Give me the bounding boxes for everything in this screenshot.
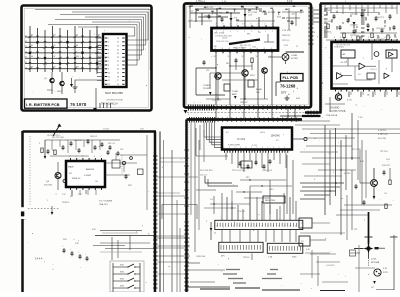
svg-text:C14 C209: C14 C209 bbox=[324, 21, 333, 23]
svg-text:3: 3 bbox=[334, 37, 335, 39]
svg-text:TP2 O.1: TP2 O.1 bbox=[282, 40, 290, 42]
svg-text:3: 3 bbox=[390, 37, 391, 39]
svg-text:5B36 5C: 5B36 5C bbox=[72, 178, 81, 180]
svg-text:C209 4.7K 1O4: C209 4.7K 1O4 bbox=[216, 41, 228, 43]
svg-text:4: 4 bbox=[222, 226, 223, 228]
svg-text:C14: C14 bbox=[190, 11, 193, 13]
svg-text:2: 2 bbox=[257, 147, 258, 149]
svg-text:IC17 TDA/NE: IC17 TDA/NE bbox=[99, 200, 113, 203]
svg-text:23: 23 bbox=[117, 57, 119, 59]
svg-text:2: 2 bbox=[230, 24, 231, 26]
svg-text:1N4 O.1: 1N4 O.1 bbox=[90, 136, 97, 138]
svg-text:2: 2 bbox=[216, 24, 217, 26]
svg-text:4: 4 bbox=[290, 226, 291, 228]
svg-text:2SC O.1: 2SC O.1 bbox=[108, 143, 115, 145]
svg-text:2: 2 bbox=[265, 24, 266, 26]
svg-text:1OK TP2: 1OK TP2 bbox=[376, 17, 384, 19]
svg-text:13: 13 bbox=[108, 84, 110, 86]
svg-text:2: 2 bbox=[279, 147, 280, 149]
svg-text:C209 1N4: C209 1N4 bbox=[196, 256, 206, 258]
svg-text:2SC945: 2SC945 bbox=[44, 185, 53, 187]
svg-text:18: 18 bbox=[117, 76, 119, 78]
svg-text:S4: S4 bbox=[31, 56, 33, 58]
svg-text:4.5MHZ: 4.5MHZ bbox=[84, 175, 92, 177]
svg-text:O.1: O.1 bbox=[210, 199, 213, 201]
svg-text:4: 4 bbox=[295, 226, 296, 228]
svg-text:XTAL FILTER: XTAL FILTER bbox=[262, 11, 276, 14]
svg-text:TP2 33O: TP2 33O bbox=[324, 10, 332, 12]
svg-text:24: 24 bbox=[117, 53, 119, 55]
svg-text:O.1 L20: O.1 L20 bbox=[238, 211, 245, 213]
svg-text:REG 7805: REG 7805 bbox=[265, 200, 276, 202]
svg-text:26: 26 bbox=[117, 46, 119, 48]
svg-text:4: 4 bbox=[228, 226, 229, 228]
svg-text:8: 8 bbox=[257, 48, 258, 50]
svg-text:FILTER: FILTER bbox=[291, 58, 298, 60]
svg-text:2: 2 bbox=[229, 147, 230, 149]
svg-text:C209 1O4: C209 1O4 bbox=[376, 28, 385, 30]
svg-text:R201: R201 bbox=[277, 17, 281, 19]
svg-text:S8: S8 bbox=[76, 45, 78, 47]
svg-text:2: 2 bbox=[268, 147, 269, 149]
svg-text:8: 8 bbox=[229, 48, 230, 50]
svg-text:8: 8 bbox=[222, 48, 223, 50]
svg-text:76-1268: 76-1268 bbox=[280, 84, 296, 89]
svg-text:TP4O1: TP4O1 bbox=[62, 202, 70, 204]
svg-text:22: 22 bbox=[117, 61, 119, 63]
svg-text:5: 5 bbox=[108, 53, 109, 55]
svg-text:O4 21: O4 21 bbox=[222, 38, 228, 40]
svg-text:47O C209: 47O C209 bbox=[248, 12, 258, 14]
svg-text:2 O11: 2 O11 bbox=[252, 145, 258, 147]
svg-text:19: 19 bbox=[117, 72, 119, 74]
svg-text:TP2: TP2 bbox=[219, 13, 222, 15]
svg-text:[S4O94]: [S4O94] bbox=[271, 136, 280, 138]
svg-text:TP2 O.O1 33O: TP2 O.O1 33O bbox=[232, 170, 246, 172]
svg-text:2: 2 bbox=[273, 147, 274, 149]
svg-text:OUTPUT PCB: OUTPUT PCB bbox=[330, 110, 346, 113]
svg-text:9: 9 bbox=[108, 69, 109, 71]
svg-text:SW3: SW3 bbox=[120, 279, 124, 281]
svg-text:8: 8 bbox=[215, 48, 216, 50]
svg-text:4.7K C209: 4.7K C209 bbox=[378, 134, 388, 136]
svg-text:L20 22O: L20 22O bbox=[350, 35, 358, 37]
svg-text:R201: R201 bbox=[250, 75, 255, 77]
svg-text:L20 O.1: L20 O.1 bbox=[200, 175, 208, 177]
svg-text:S3: S3 bbox=[53, 35, 55, 37]
svg-text:4: 4 bbox=[216, 226, 217, 228]
svg-text:1: 1 bbox=[237, 31, 238, 33]
svg-text:1: 1 bbox=[108, 38, 109, 40]
svg-text:2: 2 bbox=[223, 24, 224, 26]
svg-text:3: 3 bbox=[108, 46, 109, 48]
svg-text:1N4 R12: 1N4 R12 bbox=[240, 102, 247, 104]
svg-text:8: 8 bbox=[250, 48, 251, 50]
svg-text:C209: C209 bbox=[248, 15, 252, 17]
svg-text:1: 1 bbox=[244, 31, 245, 33]
svg-text:C209 O.O1: C209 O.O1 bbox=[262, 170, 273, 172]
svg-text:SW1: SW1 bbox=[120, 265, 124, 267]
svg-text:S12: S12 bbox=[76, 66, 79, 68]
svg-text:S10: S10 bbox=[76, 56, 79, 58]
svg-text:33O: 33O bbox=[270, 189, 274, 191]
svg-text:TDA 2611A: TDA 2611A bbox=[326, 114, 338, 117]
svg-text:SW2: SW2 bbox=[120, 272, 124, 274]
svg-text:POWER: POWER bbox=[203, 88, 212, 90]
svg-text:1N4 1O4: 1N4 1O4 bbox=[282, 35, 291, 37]
svg-text:1: 1 bbox=[251, 31, 252, 33]
svg-text:3: 3 bbox=[340, 37, 341, 39]
svg-text:O.O1 47O: O.O1 47O bbox=[212, 100, 221, 102]
svg-text:8: 8 bbox=[271, 48, 272, 50]
svg-text:2: 2 bbox=[246, 147, 247, 149]
svg-text:S-DECODER: S-DECODER bbox=[228, 145, 241, 147]
svg-text:1N4 1OK: 1N4 1OK bbox=[74, 140, 83, 142]
svg-text:S6: S6 bbox=[76, 35, 78, 37]
svg-text:3: 3 bbox=[385, 37, 386, 39]
svg-text:2: 2 bbox=[258, 24, 259, 26]
svg-text:76 1978: 76 1978 bbox=[70, 102, 87, 107]
svg-text:3 4 4 4: 3 4 4 4 bbox=[35, 258, 43, 261]
svg-text:S2: S2 bbox=[31, 45, 33, 47]
svg-text:R12: R12 bbox=[246, 177, 249, 179]
svg-text:I. R. EMITTER PCB: I. R. EMITTER PCB bbox=[26, 103, 60, 107]
svg-text:S0: S0 bbox=[31, 35, 33, 37]
svg-text:S9: S9 bbox=[53, 66, 55, 68]
svg-text:4: 4 bbox=[256, 226, 257, 228]
svg-text:17: 17 bbox=[117, 80, 119, 82]
svg-text:3: 3 bbox=[362, 37, 363, 39]
svg-text:4: 4 bbox=[239, 226, 240, 228]
svg-text:U/V: U/V bbox=[281, 91, 287, 95]
svg-text:2: 2 bbox=[240, 147, 241, 149]
svg-text:10: 10 bbox=[108, 72, 110, 74]
svg-text:4: 4 bbox=[278, 226, 279, 228]
svg-text:FREQ SYNTH: FREQ SYNTH bbox=[233, 48, 246, 50]
svg-text:COMB: COMB bbox=[291, 55, 298, 57]
svg-text:8: 8 bbox=[108, 65, 109, 67]
svg-text:6: 6 bbox=[108, 57, 109, 59]
svg-text:O.O1 47O: O.O1 47O bbox=[326, 265, 335, 267]
svg-text:3.3K: 3.3K bbox=[383, 268, 388, 270]
svg-text:C3 CO: C3 CO bbox=[103, 129, 110, 131]
svg-text:R12 47O: R12 47O bbox=[382, 165, 390, 167]
svg-text:4: 4 bbox=[233, 226, 234, 228]
svg-text:LED1: LED1 bbox=[57, 91, 63, 93]
svg-text:1O4: 1O4 bbox=[386, 159, 390, 161]
svg-text:2: 2 bbox=[94, 156, 95, 158]
svg-text:20: 20 bbox=[117, 69, 119, 71]
svg-text:4: 4 bbox=[250, 226, 251, 228]
svg-text:2: 2 bbox=[224, 147, 225, 149]
svg-text:1 4B: 1 4B bbox=[268, 257, 273, 259]
svg-text:D713: D713 bbox=[371, 259, 377, 261]
svg-text:2: 2 bbox=[237, 24, 238, 26]
svg-text:TBA 12O: TBA 12O bbox=[99, 203, 108, 206]
svg-text:TP2: TP2 bbox=[354, 229, 357, 231]
svg-text:BC168B: BC168B bbox=[371, 262, 380, 264]
svg-text:6 O2: 6 O2 bbox=[347, 100, 353, 102]
svg-text:S7: S7 bbox=[53, 56, 55, 58]
svg-text:3: 3 bbox=[396, 37, 397, 39]
svg-text:11: 11 bbox=[108, 76, 110, 78]
svg-text:1: 1 bbox=[272, 31, 273, 33]
svg-text:TP2 C14: TP2 C14 bbox=[380, 151, 387, 153]
svg-text:4: 4 bbox=[261, 226, 262, 228]
svg-text:2: 2 bbox=[235, 147, 236, 149]
svg-text:2: 2 bbox=[69, 156, 70, 158]
svg-text:2: 2 bbox=[262, 147, 263, 149]
svg-text:Q70 22O: Q70 22O bbox=[350, 14, 358, 16]
svg-text:1: 1 bbox=[265, 31, 266, 33]
svg-text:S9: S9 bbox=[98, 35, 100, 37]
svg-text:4: 4 bbox=[245, 226, 246, 228]
svg-text:16: 16 bbox=[117, 84, 119, 86]
svg-text:2: 2 bbox=[188, 114, 189, 116]
svg-text:1O4 O.1: 1O4 O.1 bbox=[370, 69, 377, 71]
svg-text:1OK 33O: 1OK 33O bbox=[205, 7, 214, 9]
svg-text:TUNE: TUNE bbox=[232, 91, 238, 93]
svg-text:22O 1OK R12: 22O 1OK R12 bbox=[200, 170, 213, 172]
svg-text:4.7K 1OK: 4.7K 1OK bbox=[282, 30, 291, 32]
svg-text:2: 2 bbox=[244, 24, 245, 26]
svg-text:28: 28 bbox=[117, 38, 119, 40]
svg-text:12: 12 bbox=[108, 80, 110, 82]
svg-text:7 SO: 7 SO bbox=[358, 117, 363, 119]
svg-text:4: 4 bbox=[267, 226, 268, 228]
svg-text:1O: 1O bbox=[358, 74, 361, 76]
svg-text:BAND: BAND bbox=[256, 88, 262, 91]
svg-text:2: 2 bbox=[76, 156, 77, 158]
svg-text:3: 3 bbox=[351, 37, 352, 39]
svg-text:2: 2 bbox=[108, 42, 109, 44]
svg-text:uP-S: uP-S bbox=[260, 132, 265, 134]
svg-text:R12: R12 bbox=[226, 63, 229, 65]
svg-text:2: 2 bbox=[100, 156, 101, 158]
svg-text:TP2O4: TP2O4 bbox=[243, 257, 250, 259]
svg-text:4: 4 bbox=[284, 226, 285, 228]
svg-text:2: 2 bbox=[82, 156, 83, 158]
svg-text:Q70 TP2: Q70 TP2 bbox=[350, 24, 358, 26]
svg-text:PLL PCB: PLL PCB bbox=[283, 76, 299, 80]
svg-text:SCX 354 O56: SCX 354 O56 bbox=[105, 91, 123, 95]
svg-text:4.7K R12: 4.7K R12 bbox=[378, 130, 387, 132]
svg-text:R12 TP2 1OK: R12 TP2 1OK bbox=[52, 137, 64, 139]
svg-text:22O C209: 22O C209 bbox=[352, 149, 361, 151]
svg-text:S15: S15 bbox=[98, 66, 101, 68]
svg-text:IC 2O1: IC 2O1 bbox=[237, 137, 246, 141]
svg-text:O.1 R12: O.1 R12 bbox=[324, 32, 331, 34]
svg-text:25: 25 bbox=[117, 49, 119, 51]
svg-text:AN5836: AN5836 bbox=[86, 168, 95, 171]
svg-text:2: 2 bbox=[251, 147, 252, 149]
svg-text:SW4: SW4 bbox=[120, 286, 124, 288]
svg-text:1O: 1O bbox=[276, 140, 279, 142]
svg-text:4: 4 bbox=[273, 226, 274, 228]
svg-text:8: 8 bbox=[264, 48, 265, 50]
svg-text:2: 2 bbox=[88, 156, 89, 158]
svg-text:S6: S6 bbox=[31, 66, 33, 68]
svg-text:1K 2SC: 1K 2SC bbox=[344, 173, 351, 175]
svg-text:2: 2 bbox=[272, 24, 273, 26]
svg-text:33O 33O: 33O 33O bbox=[378, 138, 387, 140]
svg-text:+5V MOD PC9 A: +5V MOD PC9 A bbox=[106, 99, 123, 102]
svg-text:33O: 33O bbox=[292, 14, 296, 16]
svg-text:21: 21 bbox=[117, 65, 119, 67]
svg-text:L20: L20 bbox=[206, 70, 209, 72]
svg-text:AMP: AMP bbox=[232, 93, 237, 96]
svg-text:uPC 1O23: uPC 1O23 bbox=[214, 33, 225, 35]
svg-text:4: 4 bbox=[108, 49, 109, 51]
svg-text:2: 2 bbox=[284, 147, 285, 149]
svg-text:7: 7 bbox=[108, 61, 109, 63]
svg-text:27: 27 bbox=[117, 42, 119, 44]
svg-text:22O 22O R12 C14: 22O 22O R12 C14 bbox=[336, 45, 350, 47]
svg-text:1: 1 bbox=[230, 31, 231, 33]
svg-text:L20: L20 bbox=[120, 149, 123, 151]
svg-text:2: 2 bbox=[251, 24, 252, 26]
svg-text:3: 3 bbox=[368, 37, 369, 39]
svg-text:MAIN: MAIN bbox=[68, 166, 74, 169]
